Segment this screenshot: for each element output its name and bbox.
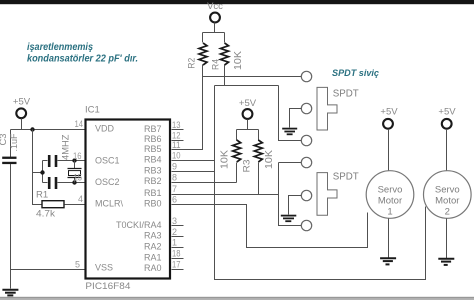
svg-text:OSC1: OSC1 (95, 155, 120, 165)
svg-text:1: 1 (387, 207, 392, 218)
pin 18 (172, 249, 184, 259)
node +5V (middle) (239, 98, 257, 119)
svg-text:6: 6 (172, 195, 177, 205)
wire (446, 219, 448, 259)
junction (72, 180, 76, 184)
svg-text:RB1: RB1 (144, 188, 162, 198)
svg-text:15: 15 (74, 173, 83, 183)
wire (446, 129, 448, 171)
wire (11, 129, 85, 131)
svg-text:işaretlenmemiş: işaretlenmemiş (27, 42, 93, 53)
wire (290, 109, 302, 128)
svg-text:4MHZ: 4MHZ (61, 134, 72, 160)
ground (switch S1) (282, 129, 297, 135)
node Vcc (207, 1, 223, 22)
svg-text:+5V: +5V (13, 97, 31, 108)
wire (224, 65, 226, 86)
pin 11 (172, 140, 181, 150)
svg-text:10: 10 (172, 151, 181, 161)
svg-text:Vcc: Vcc (207, 1, 223, 12)
note text (teal) (27, 42, 138, 65)
wire (237, 120, 259, 141)
svg-text:4: 4 (78, 194, 83, 204)
switch SPDT S1 (317, 87, 359, 130)
IC IC1 PIC16F84 (85, 105, 170, 293)
svg-text:RB0: RB0 (144, 199, 162, 209)
pin 10 (172, 151, 215, 161)
svg-text:kondansatörler 22 pF' dır.: kondansatörler 22 pF' dır. (27, 54, 138, 65)
wire (21, 119, 23, 130)
wire (203, 76, 302, 78)
svg-text:RA1: RA1 (144, 252, 162, 262)
contact S1 middle (301, 103, 311, 113)
wire (203, 23, 225, 43)
svg-text:VSS: VSS (95, 263, 113, 273)
svg-text:SPDT siviç: SPDT siviç (332, 68, 379, 78)
wire (65, 204, 85, 206)
svg-text:Motor: Motor (435, 196, 459, 207)
svg-text:10K: 10K (219, 150, 231, 169)
capacitor 22pF (bottom) (48, 177, 57, 189)
svg-text:12: 12 (172, 130, 181, 140)
svg-text:8: 8 (172, 172, 177, 182)
svg-text:RA2: RA2 (144, 242, 162, 252)
svg-text:10K: 10K (263, 150, 275, 169)
junction (30, 127, 34, 131)
wire (43, 182, 85, 184)
pin 3 (172, 216, 184, 226)
pin 13 (172, 120, 184, 130)
svg-text:C3: C3 (0, 134, 9, 146)
wire (33, 130, 43, 205)
contact S2 bottom (301, 220, 311, 230)
svg-text:SPDT: SPDT (333, 88, 360, 100)
junction (72, 158, 76, 162)
svg-text:2: 2 (172, 227, 177, 237)
svg-text:Motor: Motor (378, 196, 402, 207)
pin 7 (172, 184, 279, 194)
svg-text:RB4: RB4 (144, 154, 162, 164)
svg-text:5: 5 (75, 260, 80, 270)
resistor R4 (211, 43, 245, 70)
junction (40, 170, 44, 174)
svg-text:9: 9 (172, 162, 177, 172)
servo motor 1 (366, 171, 414, 219)
svg-text:RA0: RA0 (144, 263, 162, 273)
wire (258, 163, 260, 195)
svg-text:RB2: RB2 (144, 176, 162, 186)
servo motor 2 (424, 171, 472, 219)
resistor R2 (187, 43, 208, 69)
pin 6 (172, 195, 368, 248)
svg-text:7: 7 (172, 184, 177, 194)
wire (10, 164, 12, 270)
svg-text:RB3: RB3 (144, 166, 162, 176)
wire (279, 86, 302, 141)
svg-text:+5V: +5V (438, 107, 456, 118)
svg-text:MCLR\: MCLR\ (95, 199, 124, 209)
resistor R1 4.7k (36, 189, 64, 219)
wire (43, 160, 85, 162)
contact S1 bottom (301, 135, 311, 145)
svg-text:RA3: RA3 (144, 231, 162, 241)
ground (servo 2) (438, 259, 454, 265)
svg-text:RB7: RB7 (144, 124, 162, 134)
svg-text:.1uF: .1uF (9, 133, 20, 151)
svg-text:IC1: IC1 (85, 105, 100, 116)
svg-text:13: 13 (172, 120, 181, 130)
svg-text:11: 11 (172, 140, 181, 150)
svg-text:R4: R4 (211, 59, 222, 70)
svg-text:VDD: VDD (95, 123, 115, 133)
contact S2 top (301, 157, 311, 167)
svg-text:18: 18 (172, 249, 181, 259)
resistor 10K (left middle) (219, 140, 241, 169)
pin 17 (172, 259, 184, 269)
svg-text:Servo: Servo (435, 184, 460, 195)
svg-text:+5V: +5V (380, 107, 398, 118)
capacitor C3 .1uF (0, 133, 20, 164)
svg-text:PIC16F84: PIC16F84 (85, 281, 130, 292)
capacitor 22pF (top) (48, 155, 57, 167)
svg-text:R2: R2 (187, 58, 198, 69)
svg-text:R1: R1 (36, 189, 48, 200)
svg-text:3: 3 (172, 216, 177, 226)
node +5V (servo 2) (438, 107, 456, 129)
pin 2 (172, 227, 184, 237)
ground (servo 1) (380, 258, 396, 264)
node +5V (left) (13, 97, 31, 119)
svg-text:17: 17 (172, 259, 181, 269)
svg-text:2: 2 (445, 207, 450, 218)
wire (388, 219, 390, 258)
wire (10, 270, 12, 289)
wire (42, 161, 44, 183)
wire (33, 172, 43, 174)
wire (172, 65, 203, 150)
svg-text:10K: 10K (232, 51, 244, 70)
svg-text:+5V: +5V (239, 98, 257, 109)
wire (10, 130, 12, 158)
wire (279, 163, 302, 226)
ground (switch S2) (281, 216, 297, 222)
svg-text:Servo: Servo (378, 184, 403, 195)
resistor R3 (242, 140, 276, 173)
svg-text:1: 1 (172, 238, 177, 248)
ground (bottom left) (2, 290, 18, 296)
svg-text:T0CKI/RA4: T0CKI/RA4 (116, 220, 162, 230)
svg-text:RB5: RB5 (144, 144, 162, 154)
node +5V (servo 1) (380, 107, 398, 129)
crystal 4MHZ (61, 134, 82, 182)
svg-text:RB6: RB6 (144, 134, 162, 144)
wire (289, 196, 302, 215)
pin 8 (172, 172, 237, 182)
wire (388, 129, 390, 171)
svg-text:R3: R3 (242, 160, 253, 173)
wire (215, 85, 279, 87)
contact S1 top (301, 71, 311, 81)
svg-text:14: 14 (75, 119, 84, 129)
svg-text:16: 16 (73, 151, 82, 161)
svg-text:SPDT: SPDT (333, 171, 360, 183)
pin 9 (172, 162, 215, 172)
contact S2 middle (301, 190, 311, 200)
svg-text:4.7k: 4.7k (36, 209, 55, 220)
svg-text:OSC2: OSC2 (95, 177, 120, 187)
wire (215, 86, 426, 280)
wire (11, 269, 85, 271)
pin 1 (172, 238, 184, 248)
switch SPDT S2 (317, 171, 359, 216)
wire (236, 163, 238, 183)
pin 12 (172, 130, 184, 140)
